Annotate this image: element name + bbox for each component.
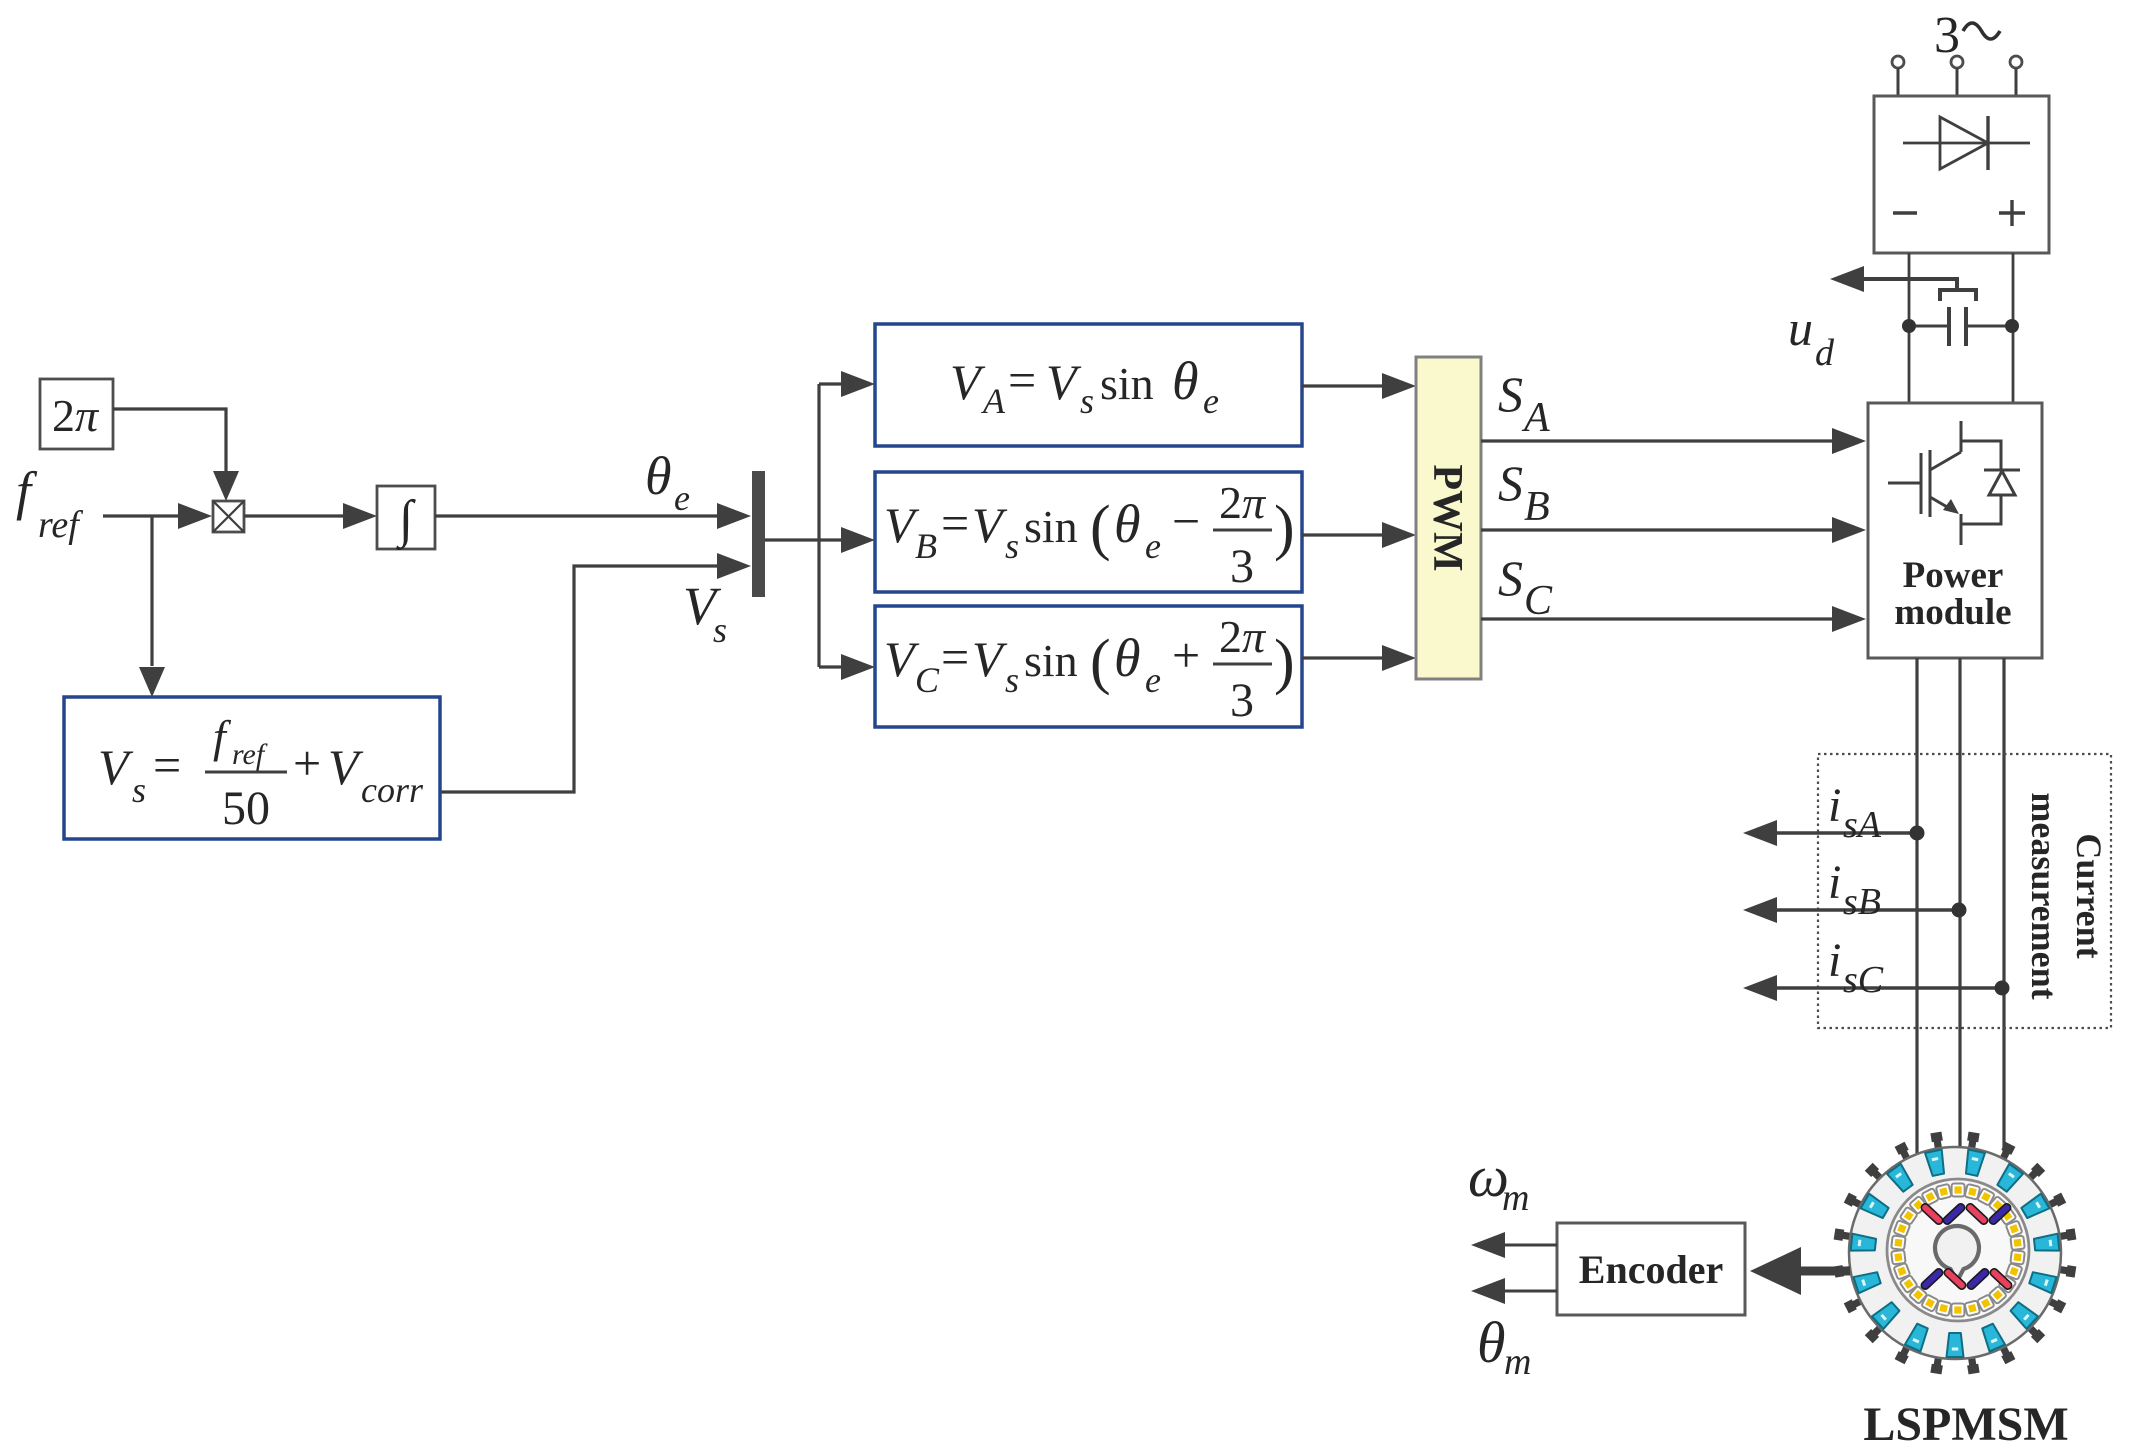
svg-text:ref: ref — [38, 504, 83, 546]
svg-text:d: d — [1815, 332, 1835, 374]
svg-text:m: m — [1502, 1177, 1529, 1219]
svg-text:B: B — [1524, 484, 1550, 530]
svg-text:∫: ∫ — [396, 491, 416, 550]
svg-text:(: ( — [1090, 494, 1111, 562]
svg-text:3: 3 — [1230, 540, 1254, 593]
svg-text:s: s — [713, 610, 727, 650]
svg-text:ref: ref — [232, 738, 268, 771]
svg-text:+: + — [1172, 627, 1200, 683]
svg-text:i: i — [1828, 856, 1841, 909]
svg-text:corr: corr — [361, 770, 424, 810]
svg-text:): ) — [1274, 494, 1295, 562]
svg-text:S: S — [1498, 366, 1523, 422]
svg-text:s: s — [1080, 381, 1094, 421]
svg-text:sin: sin — [1024, 635, 1078, 686]
svg-text:=: = — [941, 629, 969, 685]
svg-text:S: S — [1498, 455, 1523, 511]
svg-text:2π: 2π — [52, 390, 100, 441]
svg-text:S: S — [1498, 550, 1523, 606]
svg-text:(: ( — [1090, 628, 1111, 696]
svg-text:=: = — [153, 737, 181, 793]
svg-text:θ: θ — [1114, 494, 1141, 554]
svg-text:sin: sin — [1024, 501, 1078, 552]
svg-text:s: s — [1005, 526, 1019, 566]
svg-text:e: e — [1203, 381, 1219, 421]
svg-text:C: C — [915, 660, 940, 700]
svg-text:Current: Current — [2069, 833, 2109, 958]
svg-text:sB: sB — [1843, 881, 1881, 923]
svg-text:e: e — [1145, 526, 1161, 566]
svg-text:θ: θ — [1114, 628, 1141, 688]
svg-text:e: e — [1145, 660, 1161, 700]
svg-text:LSPMSM: LSPMSM — [1863, 1398, 2068, 1451]
svg-text:i: i — [1828, 934, 1841, 987]
svg-text:u: u — [1788, 300, 1813, 356]
svg-text:sC: sC — [1843, 959, 1884, 1001]
svg-text:s: s — [132, 770, 146, 810]
svg-text:+: + — [293, 735, 321, 791]
svg-text:A: A — [1521, 395, 1550, 441]
svg-text:C: C — [1524, 578, 1553, 624]
svg-text:θ: θ — [1477, 1310, 1506, 1375]
svg-text:50: 50 — [222, 782, 270, 835]
svg-text:measurement: measurement — [2024, 792, 2064, 999]
svg-text:=: = — [941, 495, 969, 551]
svg-text:θ: θ — [1172, 351, 1199, 411]
svg-text:2π: 2π — [1219, 611, 1267, 662]
svg-text:−: − — [1172, 493, 1200, 549]
svg-text:i: i — [1828, 779, 1841, 832]
svg-text:sA: sA — [1843, 804, 1882, 846]
svg-text:PWM: PWM — [1424, 464, 1470, 571]
svg-text:B: B — [915, 526, 937, 566]
svg-text:Encoder: Encoder — [1579, 1247, 1723, 1292]
svg-text:s: s — [1005, 660, 1019, 700]
svg-text:3: 3 — [1230, 674, 1254, 727]
svg-text:m: m — [1504, 1341, 1531, 1383]
svg-text:=: = — [1008, 352, 1036, 408]
svg-text:sin: sin — [1100, 358, 1154, 409]
svg-text:e: e — [674, 478, 690, 518]
svg-text:): ) — [1274, 628, 1295, 696]
svg-text:θ: θ — [645, 446, 672, 506]
svg-text:2π: 2π — [1219, 477, 1267, 528]
svg-text:A: A — [981, 381, 1006, 421]
svg-text:module: module — [1894, 592, 2011, 633]
svg-text:Power: Power — [1903, 555, 2004, 596]
